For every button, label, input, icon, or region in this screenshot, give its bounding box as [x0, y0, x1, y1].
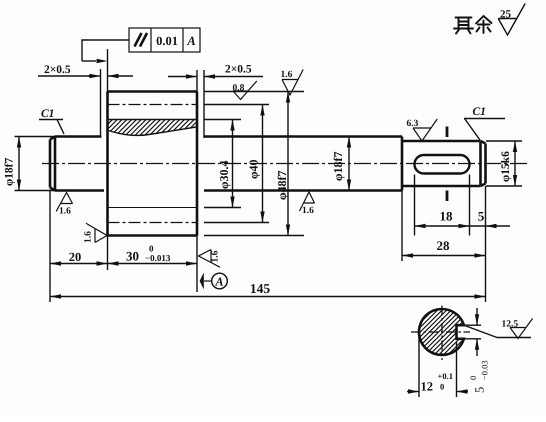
svg-text:φ18f7: φ18f7: [331, 152, 345, 181]
svg-text:−0.013: −0.013: [145, 253, 171, 263]
svg-text:C1: C1: [41, 108, 54, 120]
svg-text:1.6: 1.6: [59, 207, 71, 217]
svg-text:φ18f7: φ18f7: [4, 157, 16, 186]
svg-text:30: 30: [126, 249, 139, 264]
svg-text:25: 25: [500, 9, 512, 21]
svg-text:φ30.4: φ30.4: [217, 161, 231, 190]
svg-text:0: 0: [149, 244, 154, 254]
svg-text:0: 0: [440, 382, 444, 392]
svg-text:18: 18: [440, 209, 454, 224]
svg-text:φ48f7: φ48f7: [275, 171, 289, 200]
svg-text:1.6: 1.6: [281, 70, 293, 80]
svg-text:2×0.5: 2×0.5: [225, 64, 252, 76]
svg-text:A: A: [214, 275, 223, 289]
svg-text:145: 145: [250, 281, 271, 296]
svg-text:0.8: 0.8: [233, 84, 245, 94]
svg-text:φ40: φ40: [247, 160, 261, 180]
svg-text:12.5: 12.5: [502, 320, 519, 330]
svg-text:0: 0: [468, 376, 478, 380]
svg-text:5: 5: [473, 387, 487, 393]
svg-text:2×0.5: 2×0.5: [44, 64, 71, 76]
svg-text:+0.1: +0.1: [438, 371, 453, 381]
svg-text:1.6: 1.6: [211, 250, 221, 262]
svg-text:20: 20: [69, 250, 82, 264]
svg-text:C1: C1: [473, 106, 486, 118]
svg-text:6.3: 6.3: [407, 119, 419, 129]
svg-text:1.6: 1.6: [302, 206, 314, 216]
svg-text:−0.03: −0.03: [480, 360, 490, 380]
svg-text:A: A: [186, 34, 195, 48]
svg-text:0.01: 0.01: [156, 34, 178, 48]
svg-text:5: 5: [478, 209, 485, 224]
svg-text:12: 12: [421, 380, 434, 394]
svg-text:1.6: 1.6: [84, 231, 94, 243]
svg-text:28: 28: [437, 238, 451, 253]
svg-text:φ15k6: φ15k6: [500, 151, 512, 182]
